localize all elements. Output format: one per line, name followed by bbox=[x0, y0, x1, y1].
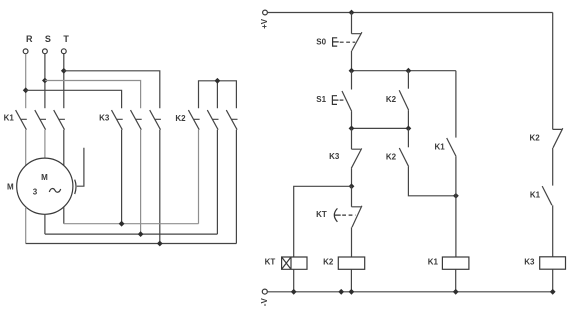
svg-text:K3: K3 bbox=[329, 152, 340, 161]
contact K1r NO bbox=[542, 186, 552, 205]
svg-text:KT: KT bbox=[316, 210, 327, 219]
wire T to K3 pole3 bbox=[64, 71, 160, 108]
wire motor earth bbox=[77, 148, 84, 186]
node rail extra bbox=[338, 289, 344, 295]
node rung2 right bbox=[406, 126, 412, 132]
node rail K3 bbox=[550, 289, 556, 295]
contactor K2 pole 2 bbox=[207, 110, 218, 130]
wire K3 pole2 down bbox=[140, 130, 142, 234]
svg-text:-V: -V bbox=[260, 298, 269, 307]
svg-text:K2: K2 bbox=[529, 133, 540, 142]
timer KT dashed link bbox=[342, 214, 355, 216]
coil K3 bbox=[540, 257, 566, 269]
svg-text:K1: K1 bbox=[4, 114, 15, 123]
wire K1a lower bbox=[455, 157, 457, 257]
motor M bbox=[17, 158, 73, 214]
wire S1 lower bbox=[351, 112, 353, 129]
wire K2a lower bbox=[407, 110, 409, 128]
contact K2a NO bbox=[399, 90, 408, 110]
motor brush arc bbox=[75, 180, 76, 194]
wire K1 pole3 to motor bbox=[63, 130, 65, 166]
wire S vertical bbox=[44, 54, 46, 108]
wire K2 pole1 down bbox=[198, 130, 200, 224]
contactor K3 pole 3 bbox=[150, 110, 161, 130]
wire K3c upper bbox=[351, 128, 353, 149]
contact KTc NC bbox=[352, 206, 362, 227]
terminal +V bbox=[263, 10, 268, 15]
wire K2 pole3 down bbox=[235, 130, 237, 244]
wire S0 lower bbox=[351, 51, 353, 71]
wire bottom rail bbox=[268, 291, 553, 293]
coil KT timer bbox=[282, 257, 307, 269]
node K3 pole1 junction bbox=[119, 221, 125, 227]
node rung1 left bbox=[349, 68, 355, 74]
contact K2r NC bbox=[553, 128, 563, 148]
contactor K3 pole 2 bbox=[131, 110, 142, 130]
wire K3 coil to rail bbox=[552, 269, 554, 292]
wire K3c lower bbox=[351, 168, 353, 186]
pushbutton S1 dashed link bbox=[340, 99, 346, 101]
wire KTc upper bbox=[351, 186, 353, 207]
node rail K2 bbox=[349, 289, 355, 295]
terminal S bbox=[43, 49, 48, 54]
svg-text:K1: K1 bbox=[428, 257, 439, 266]
wire K1a upper bbox=[455, 71, 457, 138]
wire K1 pole2 to motor bbox=[44, 130, 46, 158]
node KT branch bbox=[349, 183, 355, 189]
contactor K2 pole 1 bbox=[188, 110, 199, 130]
node R branch bbox=[23, 87, 29, 93]
contactor K1 pole 1 bbox=[16, 110, 27, 130]
timer KT actuator bbox=[334, 208, 341, 221]
svg-text:S1: S1 bbox=[316, 95, 326, 104]
wire right branch drop bbox=[552, 13, 554, 130]
terminal R bbox=[23, 49, 28, 54]
contact S1 NO bbox=[342, 91, 352, 111]
svg-text:K2: K2 bbox=[386, 95, 397, 104]
contactor K1 pole 3 bbox=[54, 110, 65, 130]
svg-text:R: R bbox=[26, 34, 33, 44]
node K3 pole3 junction bbox=[157, 241, 163, 247]
svg-text:K2: K2 bbox=[323, 258, 334, 267]
wire link U bbox=[26, 243, 237, 245]
wire K3 pole1 down bbox=[121, 130, 123, 224]
node rung2 left bbox=[349, 126, 355, 132]
wire K2b lower corner bbox=[408, 167, 456, 196]
wire K2r lower bbox=[552, 148, 554, 186]
contact K3c NC bbox=[351, 148, 361, 168]
pushbutton S0 actuator bbox=[333, 38, 339, 46]
wire K1r lower bbox=[552, 205, 554, 256]
wire K3 pole3 down bbox=[159, 130, 161, 244]
node T branch bbox=[61, 68, 67, 74]
wire motor terminal V2 bbox=[44, 214, 46, 234]
node rung1 mid bbox=[406, 68, 412, 74]
wire K2b upper bbox=[407, 128, 409, 147]
wire K1 coil to rail bbox=[455, 269, 457, 292]
wire rung 2 bbox=[352, 127, 409, 129]
motor sine symbol bbox=[49, 189, 60, 193]
coil K2 bbox=[338, 257, 364, 269]
wire R vertical bbox=[25, 54, 27, 108]
svg-text:S0: S0 bbox=[316, 37, 326, 46]
svg-text:K2: K2 bbox=[175, 114, 186, 123]
wire KT coil branch bbox=[294, 186, 352, 257]
svg-text:S: S bbox=[45, 34, 51, 44]
wire S0 upper bbox=[351, 13, 353, 34]
node rail KT bbox=[291, 289, 297, 295]
svg-text:K3: K3 bbox=[99, 113, 110, 122]
terminal -V bbox=[262, 289, 267, 294]
coil K1 bbox=[442, 257, 469, 269]
node K1 column junction bbox=[453, 193, 459, 199]
node rail K1 bbox=[453, 289, 459, 295]
contact K1a NO bbox=[447, 138, 456, 157]
wire K2 pole2 down bbox=[216, 130, 218, 234]
contact S0 NC bbox=[352, 32, 362, 51]
svg-text:K1: K1 bbox=[434, 142, 445, 151]
wire K1 pole1 to motor bbox=[25, 130, 27, 166]
pushbutton S1 actuator bbox=[332, 96, 338, 105]
pushbutton S0 dashed link bbox=[340, 41, 355, 43]
wire motor terminal W2 bbox=[63, 207, 65, 224]
svg-text:KT: KT bbox=[265, 258, 276, 267]
contactor K2 pole 3 bbox=[226, 110, 237, 130]
wire T vertical bbox=[63, 54, 65, 108]
node K3 pole2 junction bbox=[138, 231, 144, 237]
wire link V bbox=[45, 233, 218, 235]
wire K2a upper bbox=[407, 71, 409, 89]
wire motor terminal U2 bbox=[25, 207, 27, 244]
svg-text:M: M bbox=[7, 182, 14, 191]
contactor K1 pole 2 bbox=[35, 110, 46, 130]
wire KT coil to rail bbox=[293, 269, 295, 292]
K2 star bar bbox=[199, 81, 237, 108]
wire R to K3 pole1 bbox=[26, 90, 122, 108]
wire KTc lower bbox=[351, 227, 353, 257]
svg-text:K2: K2 bbox=[386, 152, 397, 161]
node top rail bbox=[349, 10, 355, 16]
contactor K3 pole 1 bbox=[112, 110, 123, 130]
contact K2b NO bbox=[399, 148, 408, 167]
node K2 star bbox=[215, 78, 221, 84]
wire S1 upper bbox=[351, 71, 353, 90]
svg-text:+V: +V bbox=[260, 18, 269, 29]
node S branch bbox=[42, 78, 48, 84]
wire K2 coil to rail bbox=[350, 269, 352, 292]
wire top rail bbox=[267, 12, 552, 14]
terminal T bbox=[61, 49, 66, 54]
wire S to K3 pole2 bbox=[45, 81, 141, 109]
wire rung 1 bbox=[352, 70, 456, 72]
svg-text:3: 3 bbox=[33, 187, 38, 196]
svg-text:M: M bbox=[41, 173, 48, 182]
svg-text:K3: K3 bbox=[524, 257, 535, 266]
svg-text:T: T bbox=[63, 34, 69, 44]
svg-text:K1: K1 bbox=[530, 191, 541, 200]
wire link W bbox=[64, 223, 199, 225]
